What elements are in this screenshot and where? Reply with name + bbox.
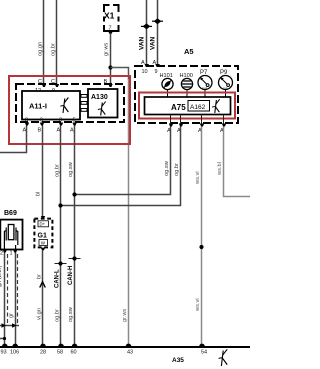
svg-text:A5: A5 <box>184 47 194 56</box>
svg-text:54: 54 <box>201 350 207 356</box>
connector nubs between A11-I and A130 <box>81 95 87 112</box>
svg-text:og.sw: og.sw <box>68 306 74 322</box>
svg-text:28: 28 <box>40 350 46 356</box>
wire CAN-L from pin 3/A to terminal 58 <box>60 126 62 347</box>
svg-text:A75: A75 <box>171 103 186 112</box>
terminal 93 <box>1 344 8 356</box>
wire og.gn from top to A11 pin C12 <box>43 0 45 84</box>
module A130 box <box>88 89 118 118</box>
terminal 28 <box>40 344 46 356</box>
svg-text:ws.vi: ws.vi <box>195 298 201 312</box>
control unit A5 dashed box <box>135 66 238 123</box>
CAN junction marker H <box>69 256 81 260</box>
svg-text:ws.bl: ws.bl <box>217 162 223 176</box>
A5 bottom pin A (og.br) <box>177 115 183 135</box>
svg-text:A35: A35 <box>172 357 184 364</box>
twisted pair marker on VAN 1 <box>141 23 152 29</box>
svg-text:A: A <box>141 60 145 66</box>
svg-text:C: C <box>38 79 42 85</box>
pin A/10 of A5 <box>141 60 149 75</box>
svg-text:B: B <box>38 128 42 134</box>
terminal 43 <box>126 344 133 356</box>
A5 bottom pin A (ws.vi) <box>198 115 204 135</box>
terminal 60 <box>71 344 78 356</box>
red highlight box around A75 <box>139 93 235 119</box>
svg-text:X1: X1 <box>104 11 115 21</box>
pin tick X1-7 <box>108 31 113 34</box>
A5 bottom pin A (ws.bl) <box>220 115 226 135</box>
pin 3/A of A11 <box>57 118 64 134</box>
CAN junction marker L <box>55 261 67 265</box>
svg-text:CAN-L: CAN-L <box>55 269 61 288</box>
svg-text:B69: B69 <box>4 210 17 217</box>
svg-text:og.br: og.br <box>51 43 57 56</box>
svg-text:bl: bl <box>36 192 42 196</box>
key symbol at bottom right <box>219 349 228 366</box>
terminal 54 <box>199 344 207 356</box>
pin C/12 of A11 <box>35 79 46 94</box>
svg-text:VAN: VAN <box>139 36 146 50</box>
shield connection line with arrows <box>0 323 19 327</box>
wire ws.bl from A5 down and right <box>224 127 251 197</box>
svg-text:60: 60 <box>71 350 77 356</box>
svg-text:A11-I: A11-I <box>29 102 47 111</box>
shield drain connection <box>0 337 6 340</box>
key symbol in A11-I <box>60 98 68 114</box>
wire from B69 pin 2 to terminal 93 <box>4 253 6 347</box>
svg-text:43: 43 <box>127 350 133 356</box>
svg-text:og.br: og.br <box>174 163 180 176</box>
svg-text:gr.ws: gr.ws <box>122 309 128 322</box>
wire VAN 1 <box>146 0 148 66</box>
svg-text:og.sw: og.sw <box>68 161 74 177</box>
A5 bottom pin A (og.sw) <box>167 115 173 135</box>
svg-text:VAN: VAN <box>150 36 157 50</box>
pin 1 of B69 <box>10 250 18 257</box>
svg-text:G1: G1 <box>38 233 47 240</box>
wire VAN 2 <box>157 0 159 66</box>
svg-text:93: 93 <box>1 350 7 356</box>
pin C/9 of A11 <box>51 79 59 94</box>
terminal 58 <box>57 344 64 356</box>
svg-text:1: 1 <box>10 251 13 257</box>
cable shield dashed lines <box>8 254 18 326</box>
svg-text:A162: A162 <box>190 104 206 111</box>
svg-text:gr.ws: gr.ws <box>104 43 110 56</box>
junction dot on ws.vi <box>199 245 203 249</box>
connector X1 <box>104 5 119 32</box>
svg-text:W: W <box>41 241 46 246</box>
svg-text:7: 7 <box>109 26 112 32</box>
svg-text:gn (b.br): gn (b.br) <box>0 265 3 287</box>
wire br/vi.gn from G1 to terminal 28 <box>42 250 44 346</box>
svg-text:og.br: og.br <box>55 309 61 322</box>
svg-text:2: 2 <box>0 251 3 257</box>
junction dot og.br <box>58 203 62 207</box>
svg-text:gr: gr <box>9 313 15 318</box>
indicator lamp H101 <box>160 73 174 97</box>
gauge P9 <box>219 70 233 97</box>
svg-text:C: C <box>51 79 55 85</box>
pin A/9 of A5 <box>153 60 160 75</box>
svg-text:A: A <box>70 128 74 134</box>
control unit A11 dashed box <box>16 84 124 122</box>
svg-text:r/min: r/min <box>223 87 229 90</box>
wire og.br from A5 down and left <box>61 127 181 206</box>
junction dot on gr.ws <box>108 65 112 69</box>
svg-text:D+: D+ <box>40 222 46 227</box>
svg-text:vi.gn: vi.gn <box>37 308 43 320</box>
direction arrow on wire <box>40 282 46 288</box>
wire CAN-H from pin 5/A to terminal 60 <box>74 126 76 347</box>
svg-text:A130: A130 <box>91 94 108 101</box>
pin 8/A of A11 <box>23 118 30 134</box>
wire bl from pin 9/B to G1 <box>42 126 44 219</box>
terminal 106 <box>10 344 19 356</box>
module A75 box <box>145 97 231 115</box>
svg-text:10: 10 <box>142 69 148 75</box>
svg-text:og.sw: og.sw <box>164 160 170 176</box>
svg-text:og.br: og.br <box>55 164 61 177</box>
wire from pin 8/A exiting left <box>0 126 27 153</box>
twisted pair marker on VAN 2 <box>152 18 163 24</box>
junction dot og.sw <box>72 192 76 196</box>
svg-text:58: 58 <box>57 350 63 356</box>
gauge P7 <box>198 70 212 97</box>
ground rail (bottom bus line) <box>0 346 250 348</box>
svg-text:106: 106 <box>10 350 19 356</box>
svg-text:B: B <box>104 79 108 85</box>
wire branch gr.ws to right and down to terminal 43 <box>111 68 129 81</box>
pin B/1 of A11 <box>104 79 113 94</box>
wire og.br from top to A11 pin C9 <box>56 0 58 84</box>
buzzer H100 <box>180 73 193 97</box>
svg-text:9: 9 <box>155 69 158 75</box>
pin 9/B of A11 <box>38 118 45 134</box>
svg-text:CAN-H: CAN-H <box>68 266 74 285</box>
key symbol in A75 <box>212 99 220 113</box>
pin 5/A of A11 <box>70 118 77 134</box>
generator G1 box <box>34 216 52 250</box>
wire from B69 pin 1 to terminal 106 <box>15 253 17 347</box>
module A11-I box <box>22 91 80 120</box>
svg-text:br: br <box>37 274 43 279</box>
svg-text:og.gn: og.gn <box>38 42 44 56</box>
svg-text:ws.vi: ws.vi <box>195 171 201 185</box>
pin 2 of B69 <box>0 250 7 257</box>
wire og.sw from A5 down and left <box>75 127 171 195</box>
key symbol in A130 <box>98 102 106 116</box>
wire gr.ws from X1 to A11 pin B1 <box>110 33 112 84</box>
wire ws.vi from A5 to terminal 54 <box>201 127 203 347</box>
sensor B69 box <box>0 220 22 250</box>
red highlight box around A11 <box>9 76 130 144</box>
